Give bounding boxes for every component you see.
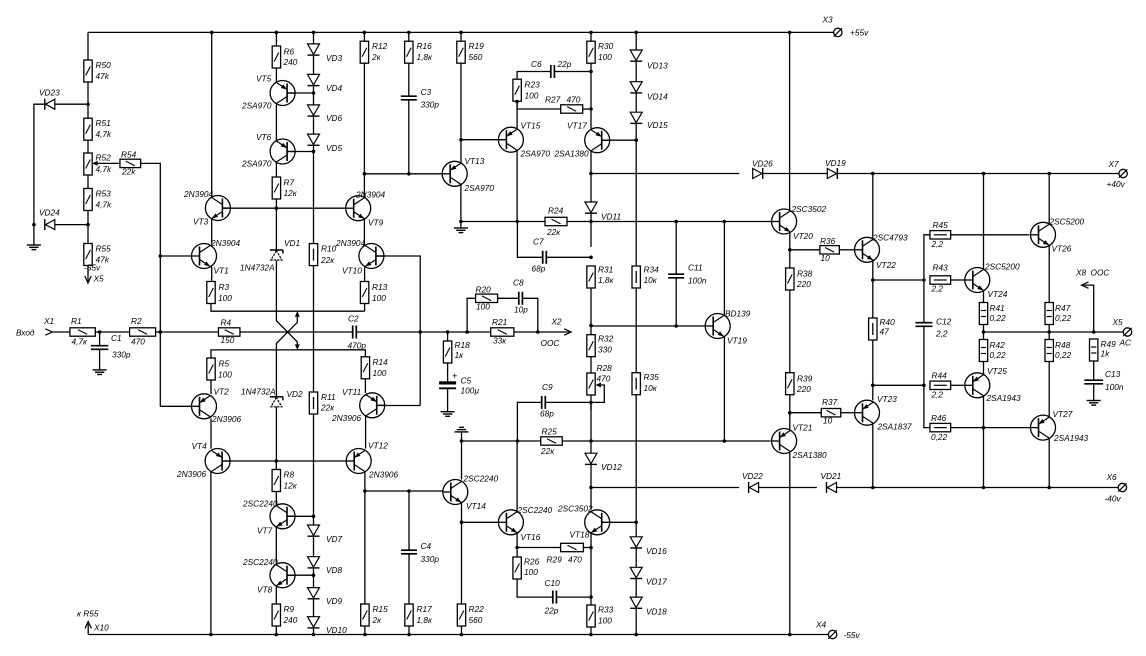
svg-text:VT13: VT13 bbox=[465, 156, 485, 166]
wire R33 to rail bbox=[590, 627, 592, 635]
svg-text:R4: R4 bbox=[221, 318, 232, 328]
resistor R52 bbox=[84, 153, 92, 175]
transistor VT19 BD139 bbox=[705, 314, 730, 339]
svg-text:C1: C1 bbox=[111, 333, 122, 343]
junction VT22 collector top bbox=[871, 172, 875, 176]
svg-text:2,2: 2,2 bbox=[935, 329, 948, 339]
resistor R54 bbox=[120, 159, 141, 167]
wire drive line bbox=[364, 173, 442, 175]
svg-text:VD9: VD9 bbox=[326, 596, 343, 606]
wire VT23 collector line east bbox=[873, 384, 924, 386]
wire VD17-VD18 bbox=[635, 579, 637, 597]
wire R13 to x-line bbox=[364, 304, 366, 312]
svg-text:C9: C9 bbox=[542, 382, 553, 392]
junction VT3 rail bbox=[210, 31, 214, 35]
svg-text:22k: 22k bbox=[121, 167, 136, 177]
wire R23 top to C6 line bbox=[517, 72, 551, 80]
svg-text:330p: 330p bbox=[421, 100, 440, 110]
wire VT6 to R7 bbox=[275, 162, 277, 177]
wire C9 to column bbox=[545, 401, 591, 403]
svg-text:330p: 330p bbox=[112, 350, 131, 360]
wire VT13 ground line bbox=[461, 221, 518, 223]
junction input node bbox=[159, 330, 163, 334]
svg-text:100n: 100n bbox=[688, 276, 707, 286]
svg-text:470: 470 bbox=[567, 95, 581, 105]
svg-text:-55v: -55v bbox=[844, 630, 861, 640]
junction VT25-R46 line bbox=[982, 426, 986, 430]
junction VD18 rail bbox=[634, 633, 638, 637]
svg-text:R12: R12 bbox=[372, 41, 388, 51]
svg-text:100: 100 bbox=[218, 370, 232, 380]
wire VT14 emitter down bbox=[461, 503, 463, 605]
svg-text:2SC2240: 2SC2240 bbox=[242, 499, 278, 509]
wire VD3 column bbox=[313, 32, 315, 44]
svg-text:10: 10 bbox=[821, 253, 831, 263]
junction R27-VT17 bbox=[589, 107, 593, 111]
capacitor C4 bbox=[401, 550, 417, 554]
diode VD18 bbox=[630, 597, 642, 608]
wire VT8 to R9 bbox=[275, 586, 277, 604]
svg-text:1k: 1k bbox=[1101, 349, 1111, 359]
wire R19 top bbox=[460, 32, 462, 41]
wire node to R14 line bbox=[297, 350, 366, 357]
wire R41 to out node bbox=[983, 325, 985, 340]
wire R11 to VD7 bbox=[313, 414, 315, 525]
svg-text:2SC2240: 2SC2240 bbox=[242, 557, 278, 567]
svg-text:220: 220 bbox=[796, 384, 811, 394]
resistor R27 bbox=[561, 105, 583, 113]
resistor R47 bbox=[1045, 303, 1053, 325]
svg-text:VT2: VT2 bbox=[214, 387, 230, 397]
svg-text:R10: R10 bbox=[321, 244, 337, 254]
wire R47 to out node bbox=[1048, 325, 1050, 340]
resistor R48 bbox=[1045, 340, 1053, 362]
wire VT18 emitter down bbox=[590, 533, 592, 605]
svg-text:R40: R40 bbox=[880, 317, 896, 327]
resistor R40 bbox=[869, 318, 877, 340]
wire R38 to R39 bbox=[789, 290, 791, 373]
junction VD3 rail bbox=[312, 31, 316, 35]
wire R34 to R35 bbox=[635, 288, 637, 373]
svg-text:R42: R42 bbox=[990, 340, 1006, 350]
diode VD8 bbox=[308, 557, 320, 568]
resistor R33 bbox=[587, 605, 595, 627]
resistor R12 bbox=[360, 41, 368, 63]
svg-text:0,22: 0,22 bbox=[990, 313, 1007, 323]
svg-text:AC: AC bbox=[1119, 338, 1133, 348]
wire VD11 to R24 line bbox=[590, 214, 592, 247]
wire VT10 base bbox=[376, 256, 420, 406]
svg-text:R39: R39 bbox=[797, 374, 813, 384]
wire VT22 emitter line east bbox=[873, 279, 924, 281]
svg-text:470: 470 bbox=[568, 555, 582, 565]
wire C1 to ground bbox=[99, 349, 101, 370]
wire R17 to rail bbox=[408, 626, 410, 635]
wire VT5 to VT6 bbox=[275, 104, 277, 142]
resistor R5 bbox=[207, 358, 215, 380]
svg-text:VD1: VD1 bbox=[284, 238, 300, 248]
diode VD16 bbox=[630, 537, 642, 548]
wire VT27 emitter down bbox=[1048, 438, 1050, 487]
resistor R17 bbox=[405, 604, 413, 626]
svg-text:к R55: к R55 bbox=[77, 609, 99, 619]
wire node to VD1 bbox=[275, 208, 277, 250]
svg-text:4,7к: 4,7к bbox=[72, 337, 89, 347]
svg-text:C8: C8 bbox=[513, 278, 524, 288]
junction VT7 base node bbox=[312, 515, 316, 519]
wire C1 drop bbox=[99, 332, 101, 346]
svg-text:VT1: VT1 bbox=[214, 266, 229, 276]
diode VD26 bbox=[753, 168, 763, 179]
terminal X3 bbox=[834, 28, 842, 36]
svg-text:47k: 47k bbox=[96, 71, 110, 81]
wire +55v top rail bbox=[88, 31, 834, 33]
svg-text:2SA1837: 2SA1837 bbox=[877, 422, 913, 432]
svg-text:X5: X5 bbox=[1112, 317, 1124, 327]
svg-text:2SC3502: 2SC3502 bbox=[791, 204, 827, 214]
junction VD10 rail bbox=[312, 633, 316, 637]
svg-text:R34: R34 bbox=[644, 265, 660, 275]
resistor R9 bbox=[272, 604, 280, 626]
wire R46 to node bbox=[951, 427, 984, 429]
wire R55 to X5 arrow bbox=[87, 266, 89, 282]
svg-text:VT17: VT17 bbox=[567, 121, 587, 131]
ground C1 bbox=[93, 370, 107, 375]
junction C7 right bbox=[589, 255, 593, 259]
wire VT1 emitter to R3 bbox=[211, 267, 213, 282]
svg-text:2N3904: 2N3904 bbox=[355, 190, 385, 200]
wire VT4 emitter to rail bbox=[210, 472, 212, 635]
resistor R22 bbox=[457, 604, 465, 626]
wire R22 to rail bbox=[461, 626, 463, 635]
resistor R1 bbox=[70, 328, 95, 336]
svg-text:VD18: VD18 bbox=[646, 607, 667, 617]
wire VT26 collector bbox=[1048, 174, 1050, 225]
svg-text:2SC2240: 2SC2240 bbox=[463, 474, 499, 484]
svg-text:R19: R19 bbox=[469, 41, 485, 51]
diode VD6 bbox=[308, 105, 320, 116]
junction C3 line bbox=[407, 172, 411, 176]
svg-text:C6: C6 bbox=[531, 59, 542, 69]
svg-text:4,7k: 4,7k bbox=[96, 129, 113, 139]
svg-text:R46: R46 bbox=[931, 413, 947, 423]
svg-text:X4: X4 bbox=[815, 620, 827, 630]
svg-text:VD5: VD5 bbox=[326, 143, 343, 153]
wire VD13 column top bbox=[635, 32, 637, 50]
svg-text:2SC5200: 2SC5200 bbox=[1049, 217, 1085, 227]
wire C2 to node bbox=[356, 331, 420, 333]
wire VD15 to R34 bbox=[635, 124, 637, 266]
svg-text:R13: R13 bbox=[372, 282, 388, 292]
svg-text:+55v: +55v bbox=[850, 28, 869, 38]
junction C11 top bbox=[674, 220, 678, 224]
svg-text:R3: R3 bbox=[219, 282, 230, 292]
wire VT3 collector to rail bbox=[211, 32, 213, 196]
wire R12 top bbox=[363, 32, 365, 41]
junction C8 fb bbox=[536, 330, 540, 334]
wire VT15 collector up bbox=[516, 102, 518, 130]
junction R7-VD1 node bbox=[275, 206, 279, 210]
wire VD23 left column bbox=[34, 104, 44, 224]
wire R8 to VT7 bbox=[275, 492, 277, 506]
terminal X7 bbox=[1119, 169, 1127, 177]
diode VD19 bbox=[827, 168, 837, 179]
junction R15 rail bbox=[363, 633, 367, 637]
transistor VT27 2SA1943 bbox=[1031, 415, 1056, 440]
svg-text:22к: 22к bbox=[540, 446, 555, 456]
svg-text:22p: 22p bbox=[557, 59, 572, 69]
svg-text:VD19: VD19 bbox=[825, 158, 846, 168]
diode VD7 bbox=[308, 525, 320, 536]
wire R15 to rail bbox=[364, 626, 366, 635]
diode VD5 bbox=[308, 134, 320, 145]
wire node to VD12 bbox=[590, 402, 592, 453]
svg-text:C7: C7 bbox=[533, 237, 544, 247]
resistor R50 bbox=[84, 60, 92, 82]
svg-text:2,2: 2,2 bbox=[931, 239, 944, 249]
svg-text:R21: R21 bbox=[492, 317, 507, 327]
junction R43 column bbox=[922, 278, 926, 282]
transistor VT26 2SC5200 bbox=[1031, 222, 1056, 247]
wire VT13 emitter to ground bbox=[460, 184, 462, 228]
resistor R49 bbox=[1090, 339, 1098, 361]
svg-text:R16: R16 bbox=[417, 41, 433, 51]
wire R25 to VT21 bbox=[562, 440, 771, 442]
wire C9 drop bbox=[517, 402, 541, 441]
transistor VT2 2N3906 bbox=[192, 394, 217, 419]
wire VD3-VD4 bbox=[313, 56, 315, 75]
wire VT22 collector bbox=[872, 174, 874, 240]
junction VT19-R25 line bbox=[723, 439, 727, 443]
wire X10 stub bbox=[87, 624, 89, 635]
wire R6 top bbox=[275, 32, 277, 46]
svg-text:C4: C4 bbox=[421, 541, 432, 551]
wire R21 to X2 bbox=[514, 331, 569, 333]
wire VD16-VD17 bbox=[635, 548, 637, 567]
svg-text:R43: R43 bbox=[933, 263, 949, 273]
wire R8 node down bbox=[275, 461, 277, 470]
svg-text:100: 100 bbox=[372, 293, 386, 303]
junction VT18 base node bbox=[634, 521, 638, 525]
wire VD23 line bbox=[55, 103, 88, 105]
wire R2 to node bbox=[156, 331, 161, 333]
arrow X10 up bbox=[85, 622, 91, 629]
svg-text:2SA970: 2SA970 bbox=[241, 101, 272, 111]
svg-text:470: 470 bbox=[131, 337, 145, 347]
wire VT11 emitter to VT12 bbox=[365, 416, 367, 449]
diode VD12 bbox=[585, 453, 597, 464]
junction X8 column bbox=[1092, 330, 1096, 334]
capacitor C12 bbox=[915, 323, 932, 327]
capacitor C1 bbox=[91, 346, 108, 350]
transistor VT20 2SC3502 bbox=[772, 209, 797, 234]
resistor R4 bbox=[218, 328, 240, 336]
transistor VT21 2SA1380 bbox=[772, 429, 797, 454]
wire R20 drop bbox=[467, 298, 476, 332]
svg-text:22к: 22к bbox=[546, 227, 561, 237]
wire C6 node to R27 node bbox=[590, 72, 592, 110]
resistor R32 bbox=[587, 335, 595, 357]
junction R12 rail bbox=[363, 31, 367, 35]
wire VT3 base line bbox=[222, 207, 345, 209]
wire R23 node to R27 bbox=[517, 102, 561, 110]
svg-text:R55: R55 bbox=[96, 244, 112, 254]
resistor R41 bbox=[979, 303, 987, 325]
svg-text:VT12: VT12 bbox=[368, 441, 388, 451]
svg-text:C5: C5 bbox=[461, 376, 472, 386]
svg-text:4,7k: 4,7k bbox=[96, 200, 113, 210]
wire R26 to C10 line bbox=[517, 579, 553, 597]
resistor R55 bbox=[84, 244, 92, 266]
junction C4 node bbox=[407, 489, 411, 493]
svg-text:VD21: VD21 bbox=[821, 471, 842, 481]
resistor R19 bbox=[457, 41, 465, 63]
wire VT27 base line bbox=[984, 427, 1031, 429]
transistor VT7 2SC2240 bbox=[270, 504, 295, 529]
svg-text:100n: 100n bbox=[1105, 382, 1124, 392]
wire R5 to VT2 bbox=[210, 380, 212, 394]
junction R9 rail bbox=[275, 633, 279, 637]
svg-text:VD15: VD15 bbox=[647, 120, 668, 130]
wire R37 line bbox=[790, 412, 822, 414]
wire VT18 base bbox=[602, 521, 636, 523]
svg-text:2SC2240: 2SC2240 bbox=[517, 505, 553, 515]
wire top rail left drop to R50 bbox=[87, 32, 89, 49]
wire VD10 to rail bbox=[313, 628, 315, 634]
wire VT2 base bbox=[160, 405, 191, 407]
svg-text:VD23: VD23 bbox=[39, 88, 60, 98]
svg-text:2SA1380: 2SA1380 bbox=[554, 149, 590, 159]
wire C8 down to fb bbox=[523, 298, 538, 332]
junction R17 rail bbox=[407, 633, 411, 637]
wire C4 to R17 bbox=[408, 554, 410, 604]
wire VT7 to VT8 bbox=[275, 527, 277, 565]
resistor R10 bbox=[309, 244, 317, 266]
wire R27 to VT17 col bbox=[583, 108, 591, 110]
wire R52-R53 bbox=[87, 175, 89, 189]
svg-text:BD139: BD139 bbox=[725, 309, 751, 319]
resistor R15 bbox=[361, 604, 369, 626]
wire VT7 base bbox=[287, 515, 314, 517]
wire R44 to VT25 bbox=[951, 384, 965, 386]
resistor R44 bbox=[930, 381, 951, 389]
svg-text:100: 100 bbox=[476, 302, 490, 312]
resistor R45 bbox=[930, 231, 951, 239]
wire VD1 column to diagonal bbox=[276, 261, 297, 348]
wire VT19 collector up bbox=[723, 222, 725, 316]
resistor R53 bbox=[84, 189, 92, 211]
svg-text:VD2: VD2 bbox=[287, 389, 304, 399]
junction VT26 collector top bbox=[1047, 172, 1051, 176]
resistor R3 bbox=[207, 282, 215, 304]
svg-text:47: 47 bbox=[880, 327, 890, 337]
junction VT13 ground node bbox=[459, 220, 463, 224]
svg-text:10: 10 bbox=[823, 416, 833, 426]
diode VD11 bbox=[585, 202, 597, 213]
capacitor C9 bbox=[542, 396, 546, 409]
junction R44 column bbox=[922, 384, 926, 388]
wire VT20 emitter bbox=[789, 232, 791, 268]
junction R20 drop bbox=[465, 330, 469, 334]
junction VT24 collector top bbox=[982, 172, 986, 176]
wire VT20 collector bbox=[789, 32, 791, 211]
wire VT24 emitter bbox=[983, 291, 985, 303]
wire R43 to VT24 bbox=[951, 279, 965, 281]
wire C7 to column bbox=[546, 256, 591, 258]
wire VD19 east bbox=[837, 173, 1123, 175]
svg-text:1,8к: 1,8к bbox=[417, 615, 434, 625]
svg-text:560: 560 bbox=[469, 52, 483, 62]
wire left column to ground bbox=[33, 225, 35, 245]
svg-text:VT15: VT15 bbox=[521, 121, 541, 131]
resistor R39 bbox=[786, 373, 794, 395]
wire VT15 emitter down bbox=[516, 150, 518, 221]
terminal X5 bbox=[1123, 328, 1131, 336]
svg-text:R49: R49 bbox=[1101, 339, 1117, 349]
wire VT12 emitter down bbox=[364, 472, 366, 605]
wire C4 node down bbox=[408, 491, 410, 550]
svg-text:R23: R23 bbox=[525, 80, 541, 90]
svg-text:C2: C2 bbox=[348, 314, 359, 324]
transistor VT12 2N3906 bbox=[346, 449, 371, 474]
transistor VT13 2SA970 bbox=[442, 161, 467, 186]
junction R36 node bbox=[788, 248, 792, 252]
svg-text:330p: 330p bbox=[421, 554, 440, 564]
junction VD24-R53 bbox=[86, 223, 90, 227]
arrow R54 wiper bbox=[92, 161, 98, 166]
svg-text:240: 240 bbox=[283, 57, 298, 67]
wire R42 to VT25 bbox=[983, 362, 985, 375]
wire C11 bottom bbox=[675, 278, 677, 326]
wire R18 to C5 bbox=[447, 363, 449, 381]
svg-text:2SC3502: 2SC3502 bbox=[557, 504, 593, 514]
wire R48 to VT27 bbox=[1048, 362, 1050, 418]
wire R20 to C8 bbox=[498, 297, 519, 299]
wire R45 drop bbox=[924, 235, 930, 280]
svg-text:R35: R35 bbox=[644, 372, 660, 382]
svg-text:R32: R32 bbox=[598, 334, 614, 344]
transistor VT17 2SA1380 bbox=[585, 128, 610, 153]
junction R23-R27 bbox=[515, 100, 519, 104]
svg-text:100: 100 bbox=[525, 91, 539, 101]
arrow X2 bbox=[564, 329, 571, 335]
wire R54 wiper bbox=[92, 162, 120, 164]
svg-text:100µ: 100µ bbox=[461, 386, 480, 396]
wire C12 column bbox=[923, 280, 925, 323]
transistor VT18 2SC3502 bbox=[585, 510, 610, 535]
transistor VT23 2SA1837 bbox=[855, 400, 880, 425]
diode VD13 bbox=[630, 50, 642, 61]
svg-text:R25: R25 bbox=[542, 427, 558, 437]
resistor R51 bbox=[84, 118, 92, 140]
svg-text:VT16: VT16 bbox=[521, 532, 541, 542]
junction output R41 bbox=[982, 330, 986, 334]
resistor R18 bbox=[443, 341, 451, 363]
svg-text:1N4732A: 1N4732A bbox=[240, 263, 275, 273]
resistor R31 bbox=[587, 266, 595, 288]
wire R37 to VT23 bbox=[841, 412, 855, 414]
wire VT19 base line bbox=[591, 325, 705, 327]
resistor R42 bbox=[979, 340, 987, 362]
svg-text:Вход: Вход bbox=[16, 328, 35, 338]
wire VT23 emitter down bbox=[872, 423, 874, 487]
terminal X6 bbox=[1118, 483, 1126, 491]
svg-text:VT5: VT5 bbox=[256, 74, 272, 84]
resistor R43 bbox=[930, 276, 951, 284]
resistor R7 bbox=[272, 177, 280, 199]
svg-text:R44: R44 bbox=[932, 371, 948, 381]
junction R33 rail bbox=[589, 633, 593, 637]
